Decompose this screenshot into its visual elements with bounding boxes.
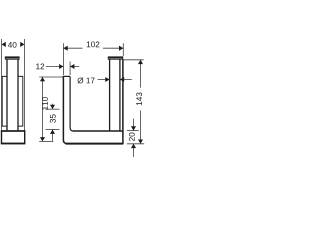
dim 110: dimension line <box>42 77 44 141</box>
dim 12: leader lines and arrows <box>46 66 64 68</box>
dim 102: dimension line <box>63 47 82 49</box>
dim 143 arrowhead bottom <box>138 140 143 144</box>
dim dia17: leader lines and arrows <box>98 79 110 81</box>
dim text 35 <box>50 114 56 122</box>
side view: wall plate <box>2 131 25 144</box>
dim 110 arrowhead top <box>40 77 45 81</box>
dim 40 arrowhead left <box>2 42 6 47</box>
side view: upturn bar profile <box>2 76 7 126</box>
dim text 20 <box>129 133 135 141</box>
dim 110 arrowhead bottom <box>40 137 45 141</box>
dim 12 arrowhead right <box>70 64 74 69</box>
dim 102 arrowhead left <box>63 46 67 51</box>
side view: post <box>6 59 8 131</box>
front view: cap <box>108 56 123 58</box>
dim 143 arrowhead top <box>138 60 143 64</box>
dim dia17 arrowhead right <box>120 77 124 82</box>
dim 20 arrowhead top <box>131 126 136 130</box>
dim text 102 <box>87 41 100 47</box>
dim text 40 <box>8 42 17 48</box>
dim 143: top extension <box>124 59 144 61</box>
dim text 143 <box>136 93 142 106</box>
front view: U holder outer contour (left upturn + bottom + right edge) <box>63 59 123 143</box>
dim 102 arrowhead right <box>119 46 123 51</box>
dim text 12 <box>36 63 44 69</box>
dim 35: lines, extensions, arrows <box>52 104 54 109</box>
dim text dia 17 <box>77 77 94 83</box>
front view: post (dia 17) <box>109 59 111 131</box>
front view: bottom bar top edge <box>73 130 123 132</box>
dim 110: top extension <box>39 76 63 78</box>
dim text 110 <box>42 97 48 110</box>
front view: left upturn top edge <box>63 75 70 77</box>
side view: cap <box>5 56 20 58</box>
dim dia17 arrowhead left <box>105 77 109 82</box>
front view: left upturn inner edge <box>70 76 73 131</box>
dim 20 arrowhead bottom <box>131 144 136 148</box>
side view: 40-dim extension line left <box>1 39 3 131</box>
side view: 40-dim extension line right <box>24 39 26 131</box>
dim 143: dimension line with text gap <box>140 60 142 88</box>
dim 102: extension lines <box>62 43 64 75</box>
dim 110: bottom extension <box>39 140 53 142</box>
dim 40 arrowhead right <box>20 42 24 47</box>
dim 20: lines, extension, arrows <box>133 119 135 131</box>
dim 12 arrowhead left <box>59 64 63 69</box>
dim 35 arrowhead bottom <box>50 130 55 134</box>
shared bottom extension right <box>127 143 144 145</box>
dim 35 arrowhead top <box>50 105 55 109</box>
